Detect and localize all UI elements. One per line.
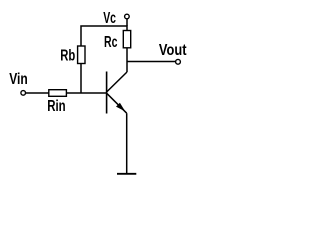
svg-text:Rb: Rb — [60, 48, 75, 65]
wire base net: Rin to base bar — [66, 92, 106, 94]
terminal Vin — [21, 91, 26, 96]
svg-text:Vc: Vc — [103, 10, 116, 27]
wire top rail (Vc rail) — [81, 26, 127, 46]
terminal Vout — [176, 59, 181, 64]
svg-text:Rc: Rc — [104, 34, 117, 51]
wire Rb bottom lead — [80, 64, 82, 94]
wire Vc terminal stem — [126, 19, 128, 26]
resistor Rc — [123, 31, 130, 48]
ground — [117, 173, 136, 175]
terminal Vc — [125, 14, 130, 19]
svg-text:Rin: Rin — [47, 98, 65, 115]
wire base net: Vin terminal to Rin — [25, 92, 48, 94]
wire Vout tap — [127, 61, 176, 63]
transistor Q1 — [107, 72, 127, 114]
svg-text:Vout: Vout — [159, 42, 187, 59]
wire Rc bottom lead (collector node) — [126, 48, 128, 72]
wire emitter vertical to ground — [126, 113, 128, 173]
resistor Rin — [49, 90, 67, 97]
resistor Rb — [78, 46, 85, 64]
svg-text:Vin: Vin — [9, 71, 28, 88]
